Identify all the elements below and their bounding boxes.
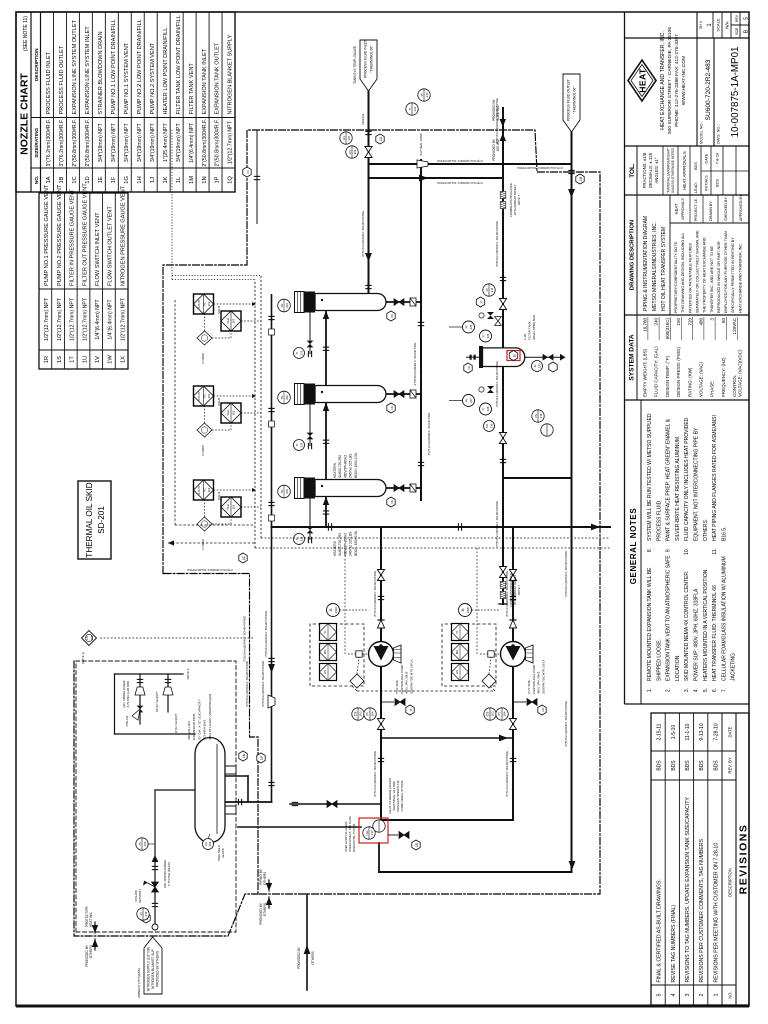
- svg-text:10,780: 10,780: [643, 318, 648, 332]
- pump no.1 gauges: [352, 708, 364, 720]
- svg-text:REV. BY: REV. BY: [728, 757, 733, 773]
- svg-text:3/4"(19mm) NPT: 3/4"(19mm) NPT: [111, 123, 117, 163]
- svg-text:ADJ. SPRING RANGE: ADJ. SPRING RANGE: [122, 680, 126, 707]
- svg-text:221: 221: [300, 350, 304, 355]
- svg-text:1C: 1C: [72, 176, 78, 183]
- svg-text:6.: 6.: [712, 688, 718, 692]
- pipe: long header y503: [502, 108, 504, 604]
- svg-text:2"(50.8mm)300#R.F. SCH40 PIPIN: 2"(50.8mm)300#R.F. SCH40 PIPING: [495, 501, 499, 547]
- svg-text:3"(76.2mm)300#R.F. SCH40 PIPE: 3"(76.2mm)300#R.F. SCH40 PIPE: [427, 413, 431, 456]
- svg-text:223: 223: [300, 536, 304, 541]
- svg-text:2"(50.8mm)300#R.F.: 2"(50.8mm)300#R.F.: [202, 119, 208, 167]
- svg-text:THERMAL OIL SKID: THERMAL OIL SKID: [85, 482, 94, 557]
- svg-text:LEAD:: LEAD:: [694, 182, 698, 193]
- svg-text:1"(25.4mm) NPT: 1"(25.4mm) NPT: [163, 123, 169, 163]
- svg-text:BDS: BDS: [713, 760, 719, 771]
- svg-text:1M: 1M: [189, 176, 195, 184]
- svg-text:VOLTAGE: (VAC)(VDC): VOLTAGE: (VAC)(VDC): [737, 349, 742, 397]
- svg-text:3/4"(19mm) NPT: 3/4"(19mm) NPT: [176, 123, 182, 163]
- svg-text:PIPING & INSTRUMENTATION DIAGR: PIPING & INSTRUMENTATION DIAGRAM: [643, 216, 649, 311]
- svg-text:PUMP NO.2 LOW POINT DRAIN/FILL: PUMP NO.2 LOW POINT DRAIN/FILL: [137, 19, 143, 114]
- svg-text:NITROGEN PRESSURE GAUGE VENT: NITROGEN PRESSURE GAUGE VENT: [120, 185, 126, 286]
- svg-text:1Q: 1Q: [228, 176, 234, 184]
- svg-text:A-DUTY: A-DUTY: [198, 485, 201, 495]
- svg-text:1K: 1K: [390, 406, 394, 410]
- svg-text:1N: 1N: [202, 176, 208, 183]
- svg-text:2"(50.8mm)300#R.F. SCH40 PIPIN: 2"(50.8mm)300#R.F. SCH40 PIPING: [564, 551, 568, 597]
- svg-text:OTHERS: OTHERS: [311, 951, 315, 964]
- svg-text:IP 316/15: IP 316/15: [202, 444, 205, 455]
- svg-text:"THERMINOL 66": "THERMINOL 66": [573, 86, 577, 114]
- svg-text:480V, 3PH, 60HZ: 480V, 3PH, 60HZ: [405, 671, 409, 694]
- svg-text:3"(76.2mm)300#R.F. SCH40 PIPIN: 3"(76.2mm)300#R.F. SCH40 PIPING: [517, 166, 563, 170]
- svg-text:DESIGN TEMP: (°F): DESIGN TEMP: (°F): [665, 356, 670, 397]
- svg-text:LSL: LSL: [365, 830, 369, 836]
- svg-text:3/4"(19mm) NPT: 3/4"(19mm) NPT: [98, 123, 104, 163]
- svg-text:SYSTEM WILL BE RUN TESTED W/ M: SYSTEM WILL BE RUN TESTED W/ METSO SUPPL…: [647, 413, 653, 541]
- filter outlet vent assemblies: [463, 395, 475, 407]
- svg-text:PUMP NO.2 SYSTEM VENT: PUMP NO.2 SYSTEM VENT: [150, 42, 156, 114]
- pump no.1 starter cluster: [310, 624, 364, 686]
- svg-text:TIC: TIC: [203, 301, 207, 307]
- svg-text:1.: 1.: [647, 688, 653, 692]
- svg-text:HEATERS: HEATERS: [333, 541, 337, 556]
- svg-text:250GPM TDC MTR 21FLA: 250GPM TDC MTR 21FLA: [409, 659, 413, 694]
- drain stub valve: [327, 801, 337, 808]
- svg-text:1V: 1V: [95, 356, 101, 363]
- svg-text:FREQUENCY: (HZ): FREQUENCY: (HZ): [721, 357, 726, 397]
- svg-text:PROCESS FLUID OUTLET: PROCESS FLUID OUTLET: [59, 45, 65, 114]
- svg-text:HEAT APPROVALS: HEAT APPROVALS: [682, 151, 687, 190]
- svg-text:303: 303: [285, 489, 289, 494]
- svg-text:SIZE: SIZE: [735, 27, 739, 35]
- heater C temperature instruments: [194, 480, 214, 500]
- svg-text:5-75 PSIG (DELIV): 5-75 PSIG (DELIV): [167, 862, 171, 886]
- svg-text:SYSTEM DATA: SYSTEM DATA: [629, 334, 636, 381]
- vent header fittings: [268, 408, 274, 411]
- svg-text:JACKETING.: JACKETING.: [731, 652, 737, 681]
- svg-text:MODEL NO.:: MODEL NO.:: [699, 121, 704, 144]
- svg-text:720: 720: [687, 318, 692, 326]
- svg-text:240: 240: [654, 318, 659, 326]
- svg-text:1N: 1N: [242, 753, 246, 758]
- svg-text:FILTER IN PRESSURE GAUGE VENT: FILTER IN PRESSURE GAUGE VENT: [70, 189, 76, 286]
- svg-text:1B: 1B: [579, 177, 583, 181]
- svg-text:213: 213: [490, 287, 494, 292]
- svg-text:HEATERS MOUNTED IN A VERTICAL: HEATERS MOUNTED IN A VERTICAL POSITION.: [703, 568, 709, 681]
- heater thermowell: [278, 299, 291, 312]
- svg-text:CENTRIFUGAL PUMP: CENTRIFUGAL PUMP: [532, 664, 536, 694]
- svg-text:210: 210: [370, 830, 374, 835]
- svg-text:2"(50.8mm)300#R.F. SCH40 PIPIN: 2"(50.8mm)300#R.F. SCH40 PIPING: [243, 616, 247, 662]
- svg-text:1K: 1K: [390, 314, 394, 318]
- svg-text:1L: 1L: [513, 354, 517, 358]
- pipe: tank outlet to red box: [238, 826, 361, 828]
- svg-text:SD-201: SD-201: [97, 506, 106, 534]
- svg-text:1/2"(12.7mm) NPT: 1/2"(12.7mm) NPT: [44, 297, 50, 341]
- svg-text:2"(50.8mm)300#R.F. SCH40 PIPIN: 2"(50.8mm)300#R.F. SCH40 PIPING: [261, 661, 265, 707]
- heater A vent valve assembly: [309, 313, 311, 355]
- svg-text:DWG. NO.:: DWG. NO.:: [716, 124, 721, 144]
- svg-text:MS: MS: [455, 650, 459, 655]
- svg-text:PROCESS FLUID INLET: PROCESS FLUID INLET: [46, 51, 52, 114]
- svg-text:TI: TI: [482, 408, 486, 411]
- svg-text:2-15-11: 2-15-11: [657, 723, 663, 740]
- inlet header flange pair: [365, 285, 371, 288]
- svg-text:SU600-720-2R2: SU600-720-2R2: [338, 533, 342, 556]
- svg-text:PROVIDED BY: PROVIDED BY: [297, 946, 301, 969]
- svg-text:1/2"(12.7mm) NPT: 1/2"(12.7mm) NPT: [82, 297, 88, 341]
- heater A strainer: [410, 298, 416, 306]
- svg-text:1/2"(12.7mm) NPT: 1/2"(12.7mm) NPT: [120, 297, 126, 341]
- svg-text:HEAT: HEAT: [674, 203, 679, 214]
- svg-text:M: M: [329, 608, 333, 611]
- svg-text:1E: 1E: [415, 843, 419, 847]
- svg-text:240KW, 225 LBS: 240KW, 225 LBS: [349, 532, 353, 556]
- svg-text:1L: 1L: [176, 176, 182, 183]
- instrument rail above heaters: [254, 280, 256, 549]
- svg-text:HOT OIL HEAT TRANSFER SYSTEM: HOT OIL HEAT TRANSFER SYSTEM: [661, 227, 667, 311]
- svg-text:1/2"(12.7mm) NPT: 1/2"(12.7mm) NPT: [228, 120, 234, 164]
- svg-text:1K: 1K: [163, 176, 169, 183]
- svg-text:TE: TE: [280, 396, 284, 400]
- gauge vent dotted risers: [172, 279, 255, 281]
- svg-text:1A: 1A: [379, 136, 383, 141]
- svg-text:2410: 2410: [334, 606, 338, 613]
- svg-text:1/2"(12.7mm) NPT: 1/2"(12.7mm) NPT: [70, 297, 76, 341]
- svg-text:2"(50.8mm)300#R.F.: 2"(50.8mm)300#R.F.: [215, 119, 221, 167]
- svg-text:2420: 2420: [466, 606, 470, 613]
- pipe: nitrogen supply line: [154, 790, 156, 925]
- svg-text:60: 60: [721, 318, 726, 324]
- svg-text:PI: PI: [138, 842, 142, 845]
- svg-text:DESIGN PRESS: (PSIG): DESIGN PRESS: (PSIG): [676, 346, 681, 397]
- svg-text:150: 150: [676, 318, 681, 326]
- svg-text:480V, 3PH, 60HZ: 480V, 3PH, 60HZ: [537, 671, 541, 694]
- dashed signal y175: [174, 300, 176, 525]
- svg-text:SHUT/OPEN, 1/2 CORE: SHUT/OPEN, 1/2 CORE: [392, 781, 396, 811]
- svg-text:IP 316/15: IP 316/15: [202, 538, 205, 549]
- svg-text:3"(76.2mm)300#R.F.: 3"(76.2mm)300#R.F.: [46, 119, 52, 167]
- svg-text:REVISIONS TO TAG NUMBERS, UPDA: REVISIONS TO TAG NUMBERS, UPDATE EXPANSI…: [685, 797, 691, 983]
- svg-text:1J: 1J: [150, 177, 156, 183]
- pipe: heater drops: [384, 487, 421, 489]
- svg-text:METSO MINERALS/INDUSTRIES, INC: METSO MINERALS/INDUSTRIES, INC.: [652, 222, 658, 311]
- inter-cluster dashed signal: [357, 690, 495, 692]
- svg-text:3.: 3.: [684, 688, 690, 692]
- vent header fittings: [268, 502, 274, 505]
- svg-text:PI: PI: [139, 912, 143, 915]
- svg-text:218: 218: [539, 413, 543, 418]
- svg-text:CONN. SERIAL SYSTEM: CONN. SERIAL SYSTEM: [400, 780, 404, 811]
- red revision box on drain assembly: [359, 818, 388, 843]
- svg-text:BDS: BDS: [685, 760, 691, 771]
- svg-text:216: 216: [490, 423, 494, 428]
- heater A temperature instruments: [194, 294, 214, 314]
- svg-text:HEAT INS.: HEAT INS.: [89, 912, 93, 927]
- flow arrows: [365, 253, 372, 262]
- pipe: pump no.1 discharge: [380, 527, 382, 642]
- svg-text:PROCESS FLUID OUTLET: PROCESS FLUID OUTLET: [567, 79, 571, 121]
- expansion tank shipped-loose dashed box: [76, 661, 236, 932]
- svg-text:HEAT: HEAT: [638, 68, 648, 93]
- remote tank zone boundary: [74, 661, 258, 936]
- inlet header nozzle flange: [365, 131, 371, 134]
- svg-text:3"(76.2mm)300#R.F. SCH40 PIPIN: 3"(76.2mm)300#R.F. SCH40 PIPING: [373, 751, 377, 797]
- svg-text:PROCESS FLUID.: PROCESS FLUID.: [656, 499, 662, 541]
- svg-text:3/4"(19mm) NPT: 3/4"(19mm) NPT: [137, 123, 143, 163]
- svg-text:PROCESS/ OPEN PLATE: PROCESS/ OPEN PLATE: [396, 780, 400, 812]
- svg-text:204: 204: [371, 711, 375, 716]
- tolerance / approvals column: [636, 146, 638, 195]
- svg-text:YL: YL: [455, 630, 459, 634]
- svg-text:HEAT PIPING AND FLANGES RATED: HEAT PIPING AND FLANGES RATED FOR ASME/A…: [712, 415, 718, 541]
- svg-text:BDS: BDS: [715, 179, 720, 188]
- svg-text:FILTER TANK: FILTER TANK: [528, 321, 532, 340]
- svg-text:EMPTY WEIGHT: (LBS): EMPTY WEIGHT: (LBS): [643, 348, 648, 397]
- pipe: pump no.1 suction: [380, 666, 382, 820]
- svg-text:PHONE: 412-276-3388 FAX: 412-2: PHONE: 412-276-3388 FAX: 412-276-3397: [674, 34, 680, 127]
- flag: process fluid inlet: [360, 40, 377, 91]
- nitrogen pressure regulator: [152, 882, 159, 892]
- svg-text:(NOTE 1): (NOTE 1): [81, 652, 85, 664]
- svg-text:"THERMINOL 66": "THERMINOL 66": [370, 45, 374, 73]
- svg-text:PROVIDED BY OTHERS: PROVIDED BY OTHERS: [156, 951, 160, 987]
- svg-text:FS: FS: [534, 414, 538, 418]
- svg-text:2"(50.8mm)300#R.F.: 2"(50.8mm)300#R.F.: [72, 119, 78, 167]
- svg-text:2: 2: [699, 994, 705, 997]
- pipe: suction manifold x204: [381, 819, 513, 821]
- svg-text:NOZZLE CHART: NOZZLE CHART: [19, 73, 31, 155]
- svg-text:3"x2" RED. CONC: 3"x2" RED. CONC: [419, 133, 423, 156]
- svg-text:225: 225: [469, 324, 473, 329]
- svg-text:201: 201: [207, 393, 211, 398]
- pump no.1 drain valve: [395, 699, 405, 706]
- svg-text:2"(50.8mm)300#R.F. SCH40 PIPE: 2"(50.8mm)300#R.F. SCH40 PIPE: [413, 343, 417, 386]
- pump no.1 motor: [327, 604, 340, 617]
- svg-text:BODY: 150# 2.5A: BODY: 150# 2.5A: [354, 452, 358, 478]
- svg-text:FILTER OUT PRESSURE GAUGE VENT: FILTER OUT PRESSURE GAUGE VENT: [82, 183, 88, 286]
- svg-text:1-5-10: 1-5-10: [671, 725, 677, 740]
- heater B temperature instruments: [194, 386, 214, 406]
- pump no.2 suction valve: [509, 719, 516, 730]
- svg-text:1/4"(6.4mm) NPT: 1/4"(6.4mm) NPT: [189, 122, 195, 163]
- vent cones: [135, 687, 145, 695]
- svg-text:TOL.: TOL.: [629, 163, 636, 178]
- vent stub at boundary: [256, 130, 258, 224]
- svg-text:2"(50.8mm)300#R.F. SCH40 PIPIN: 2"(50.8mm)300#R.F. SCH40 PIPING: [245, 661, 249, 707]
- svg-text:TAH: TAH: [226, 410, 230, 416]
- svg-text:5.: 5.: [703, 688, 709, 692]
- svg-text:STRAINER BLOWDOWN DRAIN: STRAINER BLOWDOWN DRAIN: [98, 32, 104, 115]
- svg-text:219: 219: [144, 911, 148, 916]
- svg-text:480V/3PH/60HZ: 480V/3PH/60HZ: [343, 455, 347, 478]
- svg-text:4: 4: [671, 994, 677, 997]
- svg-text:FO: FO: [485, 423, 489, 428]
- svg-text:10-007875-1A-MP01: 10-007875-1A-MP01: [730, 47, 741, 138]
- nitrogen gauges: [137, 908, 149, 920]
- svg-text:1/2"(12.7mm)NPT: 1/2"(12.7mm)NPT: [174, 713, 178, 734]
- svg-text:OTHERS: OTHERS: [263, 903, 267, 916]
- svg-text:1T: 1T: [480, 300, 484, 304]
- svg-text:TI: TI: [295, 352, 299, 355]
- svg-text:4.: 4.: [694, 688, 700, 692]
- svg-text:SU600-720-2R2-483: SU600-720-2R2-483: [705, 59, 712, 120]
- svg-text:DRAWING DESCRIPTION: DRAWING DESCRIPTION: [630, 220, 636, 290]
- svg-text:DRAWN BY:: DRAWN BY:: [709, 200, 713, 221]
- svg-text:231: 231: [413, 106, 417, 111]
- outlet nozzle flange: [568, 170, 574, 173]
- svg-text:A-DUTY: A-DUTY: [198, 391, 201, 401]
- svg-text:REPRODUCED IN WHOLE OR PART NO: REPRODUCED IN WHOLE OR PART NOR: [717, 241, 721, 313]
- svg-text:REVISIONS: REVISIONS: [738, 824, 750, 895]
- svg-text:LS: LS: [85, 636, 89, 640]
- svg-text:3/4"(19mm) NPT: 3/4"(19mm) NPT: [124, 123, 130, 163]
- svg-text:EQUIPMENT, NOT INTERCONNECTING: EQUIPMENT, NOT INTERCONNECTING PIPE BY: [694, 427, 700, 541]
- heater vessel C: [295, 478, 305, 499]
- svg-text:CELLULAR FOAMGLASS INSULATION: CELLULAR FOAMGLASS INSULATION W/ ALUMINU…: [721, 556, 727, 681]
- svg-text:1T: 1T: [70, 356, 76, 363]
- svg-text:1S: 1S: [57, 356, 63, 363]
- svg-text:AMBIENT (70°F)(MIN): AMBIENT (70°F)(MIN): [137, 968, 141, 998]
- svg-text:3"(76.2mm)300#R.F. SCH40 PIPIN: 3"(76.2mm)300#R.F. SCH40 PIPING: [373, 571, 377, 617]
- svg-text:480: 480: [699, 318, 704, 326]
- svg-text:600(316C): 600(316C): [665, 318, 670, 340]
- svg-text:TE: TE: [280, 490, 284, 494]
- svg-text:203: 203: [491, 711, 495, 716]
- svg-text:HV: HV: [342, 136, 346, 140]
- svg-text:1: 1: [707, 23, 713, 27]
- relief valve on vent line: [137, 706, 144, 713]
- svg-text:7.: 7.: [721, 688, 727, 692]
- svg-text:SON-IB: SON-IB: [218, 305, 221, 314]
- nozzle chart table: [16, 12, 235, 192]
- svg-text:1K: 1K: [390, 500, 394, 504]
- svg-text:SKID MOUNTED NEMA 4X CONTROL C: SKID MOUNTED NEMA 4X CONTROL CENTER.: [684, 571, 690, 681]
- svg-text:226: 226: [486, 333, 490, 338]
- svg-text:DESCRIPTION: DESCRIPTION: [728, 868, 733, 897]
- heater thermowell: [278, 391, 291, 404]
- pipe: pump no.2 discharge: [512, 527, 514, 642]
- svg-text:B: B: [744, 29, 750, 33]
- svg-text:1H: 1H: [137, 176, 143, 183]
- svg-text:SEPARATELY OR COLLECTIVELY SHO: SEPARATELY OR COLLECTIVELY SHOWN, ARE: [695, 230, 699, 313]
- svg-text:PI: PI: [366, 712, 370, 715]
- svg-text:APPROVED BY:: APPROVED BY:: [739, 194, 743, 221]
- svg-text:2"(50.8mm)300#R.F. SCH40 PIPIN: 2"(50.8mm)300#R.F. SCH40 PIPING: [495, 361, 499, 407]
- svg-text:240KW, 225 LBS: 240KW, 225 LBS: [349, 454, 353, 478]
- svg-text:7-8-10: 7-8-10: [715, 152, 720, 164]
- svg-text:HS: HS: [323, 670, 327, 674]
- svg-text:2"(50.8mm)300#R.F. SCH40 PIPIN: 2"(50.8mm)300#R.F. SCH40 PIPING: [264, 611, 268, 657]
- svg-text:3"(76.2mm)300#R.F.: 3"(76.2mm)300#R.F.: [59, 119, 65, 167]
- svg-text:230: 230: [538, 363, 542, 368]
- svg-text:30GAL 8PBQ BAR: 30GAL 8PBQ BAR: [532, 314, 536, 340]
- svg-text:3"x3" SIZE: 3"x3" SIZE: [395, 680, 399, 694]
- svg-text:NITROGEN BLANKET SUP: NITROGEN BLANKET SUP: [151, 949, 155, 989]
- svg-text:EXPANSION TANK: EXPANSION TANK: [192, 712, 196, 740]
- heater C series inlet line: [325, 497, 327, 528]
- svg-text:204: 204: [503, 711, 507, 716]
- svg-text:201: 201: [207, 301, 211, 306]
- svg-text:PUMP NO.1 LOW POINT DRAIN/FILL: PUMP NO.1 LOW POINT DRAIN/FILL: [111, 19, 117, 114]
- heater vessel A: [295, 292, 305, 313]
- svg-text:1U: 1U: [82, 356, 88, 363]
- svg-text:30" DIA. X 72" LG/CAPACITY: 30" DIA. X 72" LG/CAPACITY: [197, 699, 201, 740]
- general notes block: [640, 400, 642, 704]
- svg-text:VOLTAGE: (VAC): VOLTAGE: (VAC): [699, 361, 704, 397]
- svg-text:2"(50.8mm)300#R.F.: 2"(50.8mm)300#R.F.: [85, 119, 91, 167]
- svg-text:TAH: TAH: [226, 504, 230, 510]
- svg-text:9.: 9.: [666, 548, 672, 552]
- svg-text:BDS: BDS: [699, 760, 705, 771]
- nitrogen check valve: [152, 855, 159, 862]
- svg-text:1P: 1P: [260, 756, 264, 760]
- svg-text:INITIALS: INITIALS: [705, 175, 709, 191]
- svg-text:203: 203: [359, 711, 363, 716]
- nozzle chart continuation block: [39, 193, 128, 369]
- tank level gauge: [203, 839, 214, 850]
- svg-text:PI: PI: [485, 288, 489, 291]
- filter tank vessel: [483, 348, 525, 367]
- nitrogen hose connection: [152, 924, 158, 930]
- pipe: drain stub x220: [290, 803, 381, 805]
- svg-text:300# STL GRAY (150#/PSIG)(10): 300# STL GRAY (150#/PSIG)(10): [208, 694, 212, 740]
- svg-text:NO.: NO.: [34, 176, 40, 185]
- svg-text:1F: 1F: [409, 708, 413, 712]
- skid boundary dash-dot: [163, 130, 600, 894]
- svg-text:M: M: [461, 608, 465, 611]
- svg-text:PSV-211: PSV-211: [125, 715, 129, 726]
- svg-text:SHIPPED LOOSE.: SHIPPED LOOSE.: [656, 639, 662, 681]
- svg-text:209: 209: [208, 841, 212, 846]
- svg-text:5: 5: [744, 17, 750, 20]
- svg-text:HEAT EXCHANGE AND TRANSFER, IN: HEAT EXCHANGE AND TRANSFER, INC.: [738, 243, 742, 313]
- pipe: crossover x286: [381, 737, 513, 739]
- pipe: vertical riser x846: [369, 177, 504, 179]
- svg-text:DATE: DATE: [728, 726, 733, 737]
- svg-text:FILTER TANK LOW POINT DRAIN/FI: FILTER TANK LOW POINT DRAIN/FILL: [176, 15, 182, 114]
- svg-text:11-1-10: 11-1-10: [685, 723, 691, 740]
- svg-text:1B: 1B: [59, 176, 65, 183]
- svg-text:PUMP NO.2 PRESSURE GAUGE VENT: PUMP NO.2 PRESSURE GAUGE VENT: [57, 184, 63, 286]
- revisions table: [651, 713, 749, 1005]
- svg-text:3: 3: [710, 318, 715, 321]
- svg-text:SETPOINT: SETPOINT: [138, 889, 142, 903]
- pump no.1 check valve: [377, 620, 384, 628]
- electrical signal bundle: [255, 547, 610, 549]
- filter inlet vent assemblies: [463, 321, 475, 333]
- pipe: pump no.2 suction: [512, 666, 514, 820]
- pump no.2 gauges: [484, 708, 496, 720]
- svg-text:480V/3PH/60HZ: 480V/3PH/60HZ: [343, 533, 347, 556]
- vent flanges: [137, 679, 143, 682]
- pipe: tank inlet stub: [225, 775, 248, 777]
- pump no.2 motor: [459, 604, 472, 617]
- svg-text:SU600-720-2R2: SU600-720-2R2: [338, 455, 342, 478]
- svg-text:FINAL & CERTIFIED AS-BUILT DRA: FINAL & CERTIFIED AS-BUILT DRAWINGS.: [657, 879, 663, 982]
- flag: process fluid outlet: [563, 74, 580, 132]
- pump no.2 check valve: [509, 620, 516, 628]
- svg-text:CS: CS: [486, 712, 490, 716]
- boundary crossing arrows: [92, 939, 98, 947]
- svg-text:TE: TE: [280, 304, 284, 308]
- svg-text:CENTRIFUGAL PUMP: CENTRIFUGAL PUMP: [400, 664, 404, 694]
- pump no.1: [369, 642, 394, 667]
- drawing description block: [636, 195, 638, 315]
- svg-text:1/4"(6.4mm) NPT: 1/4"(6.4mm) NPT: [95, 299, 101, 340]
- hv instrument circles: [346, 146, 358, 158]
